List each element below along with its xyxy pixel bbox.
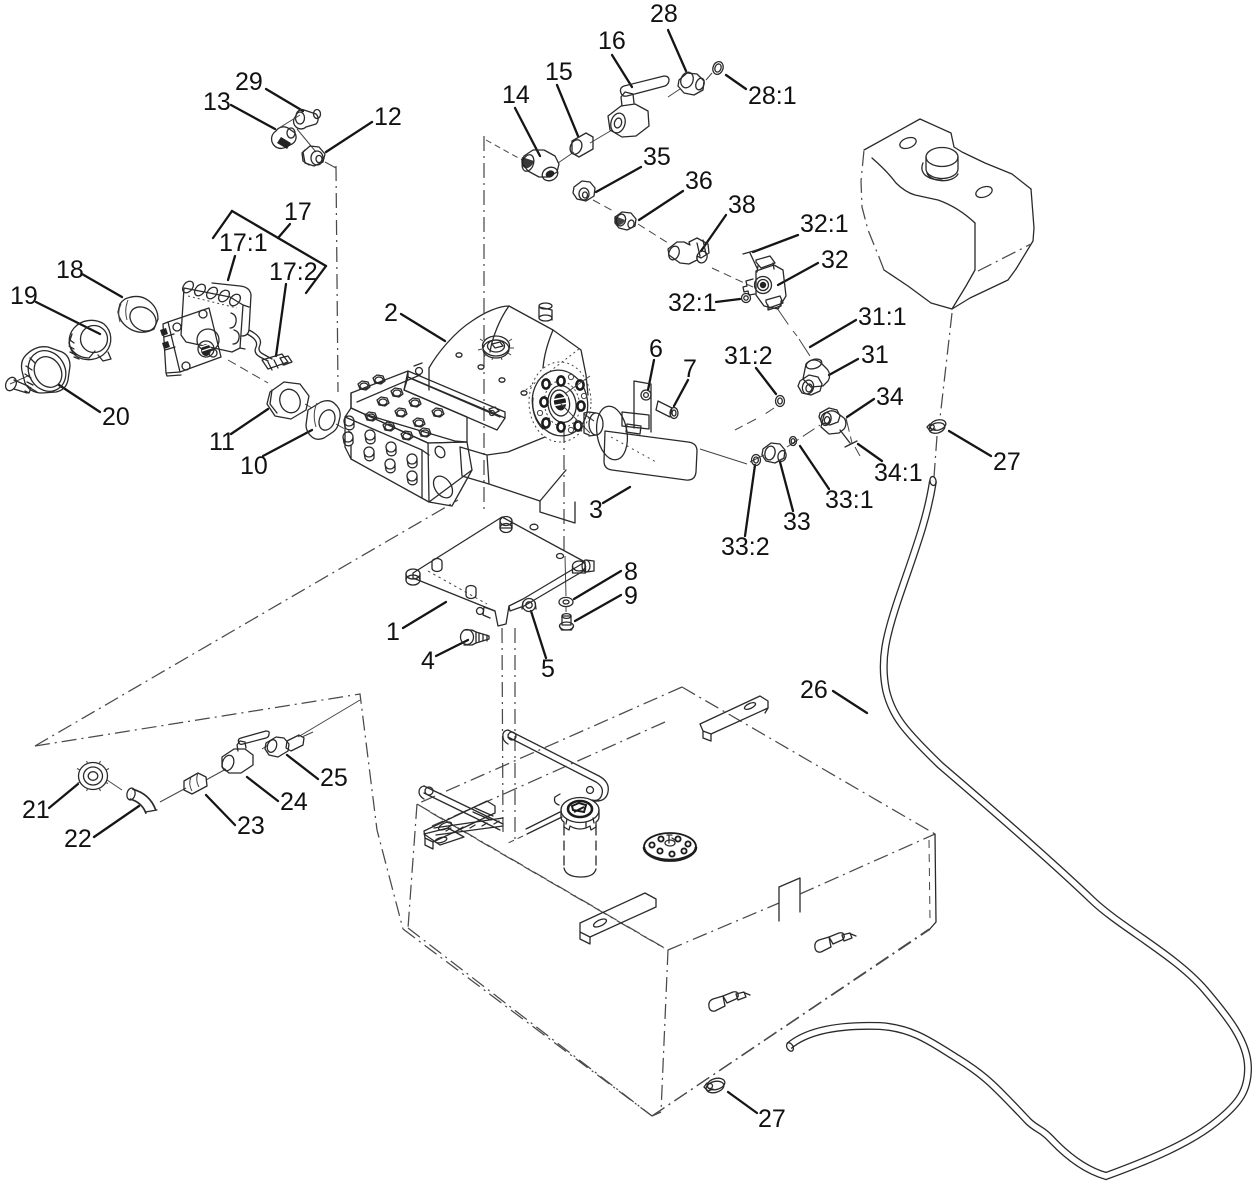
pump 2 manifold rail [404,363,505,430]
label 28 [650,0,686,71]
label 2 [384,299,445,341]
label 17:2 [269,258,318,356]
label 34 [847,383,904,417]
svg-text:15: 15 [545,58,573,86]
bracket 1 bolt top [500,517,512,533]
label 32 [778,246,849,285]
label 32:1 left [668,289,740,317]
valve 24 [220,731,269,773]
svg-text:19: 19 [10,282,38,310]
label 11 [209,409,268,456]
svg-text:18: 18 [56,256,84,284]
o-ring 33:2 [752,455,761,466]
coupler 10 [306,401,340,440]
tick 32:1 pointer [743,250,757,268]
bracket 1 bolt right with nut [573,560,595,573]
centerline gearpump to nut 11 [228,360,268,383]
svg-text:34: 34 [876,383,904,411]
svg-text:31: 31 [861,341,889,369]
gear pump 17:1 rear block [180,279,251,352]
svg-text:27: 27 [758,1105,786,1133]
barb 23 [184,773,207,794]
svg-text:29: 29 [235,68,263,96]
sensor 38 [667,238,709,264]
bracket plate 1 [413,517,585,626]
pump 2 manifold hex plugs top [358,375,444,440]
label 18 [56,256,122,297]
label 16 [598,27,632,87]
label 7 [674,355,697,406]
svg-text:3: 3 [589,496,603,524]
svg-text:16: 16 [598,27,626,55]
screw 20 pin [4,376,31,393]
svg-text:31:1: 31:1 [858,303,907,331]
tank right face [652,834,936,1116]
centerline long diagonal lower-left [35,500,458,746]
nut 5 [522,599,536,612]
label 23 [206,795,265,840]
label 25 [287,755,348,792]
pump 2 manifold front bosses [343,416,417,485]
tank petcock left [709,992,750,1011]
fitting 28 [668,70,712,97]
centerline bracket vertical right [514,628,516,840]
label 3 [589,487,630,524]
clamp 27 upper [927,418,947,435]
label 36 [639,167,713,220]
centerline left panel top edge [35,694,403,929]
tee 32 [743,256,786,310]
centerline chain 35-38 dashes [593,200,753,287]
label 14 [502,81,540,156]
bolt 4 [461,630,490,646]
label 27 right [949,431,1021,476]
centerline reservoir to hose [934,313,952,477]
tank sender plate [644,833,696,861]
fitting 33 [762,443,787,463]
svg-text:35: 35 [643,143,671,171]
elbow 31 [798,357,830,395]
label 32:1 upper [753,210,849,252]
svg-text:26: 26 [800,676,828,704]
clamp 27 lower [704,1076,726,1094]
screw 7 [656,401,678,419]
svg-text:4: 4 [421,647,435,675]
label 31 [829,341,889,375]
washer 6 [641,390,651,400]
label 33:1 [800,446,874,514]
label 10 [240,430,312,480]
centerline vertical left of pump [483,136,485,514]
svg-text:1: 1 [386,618,400,646]
svg-text:12: 12 [374,103,402,131]
label 22 [64,806,139,853]
centerline top chain axis 14-38 [486,140,522,160]
svg-text:7: 7 [683,355,697,383]
fitting 12 nut [302,146,336,168]
reservoir cap [922,148,958,181]
centerline 33 to 34 [787,418,860,456]
tank petcock right [815,933,856,952]
label 28:1 [726,75,797,110]
label 35 [596,143,671,192]
label 33:2 [721,465,770,561]
reservoir outline [861,119,1034,309]
label 17 [278,198,312,238]
pump 2 gearbox body [429,306,588,523]
tank strap bottom [580,893,656,944]
centerline o-ring 31:2 to motor chain [735,408,774,430]
svg-text:14: 14 [502,81,530,109]
washer 8 [559,597,573,606]
svg-text:33:2: 33:2 [721,533,770,561]
label 26 [800,676,867,713]
svg-text:28:1: 28:1 [748,82,797,110]
gear pump 17:1 front flange [160,308,221,376]
ball valve 16 [608,76,669,137]
pump 2 knob [478,336,514,360]
svg-text:9: 9 [624,582,638,610]
o-ring 31:2 [776,396,785,407]
svg-text:32:1: 32:1 [800,210,849,238]
tank left face [408,722,668,1116]
label 8 [574,558,638,599]
label 9 [575,582,638,621]
nut 35 [573,181,595,201]
svg-text:23: 23 [237,812,265,840]
screw 9 [560,614,574,630]
centerline chain 18-20 axis [10,375,360,802]
tank strap top [700,696,768,741]
centerline nut 11 to coupler 10 to manifold [305,404,352,433]
label 38 [701,191,756,251]
label 33 [780,462,811,536]
bushing 15 [568,133,593,157]
svg-text:6: 6 [649,335,663,363]
hose 26 [785,476,1248,1176]
o-ring 32:1 [742,294,751,303]
svg-text:33:1: 33:1 [825,486,874,514]
fitting 13 elbow [272,127,297,149]
tank top face [417,687,935,950]
svg-text:21: 21 [22,796,50,824]
wire 17:2 [247,330,292,370]
svg-text:25: 25 [320,764,348,792]
svg-text:5: 5 [541,655,555,683]
centerline flange to motor [584,414,594,421]
label 31:2 [724,342,776,394]
svg-text:27: 27 [993,448,1021,476]
svg-text:24: 24 [280,788,308,816]
label 34:1 [858,444,923,487]
motor 3 body [584,404,697,480]
callout 17 bracket [213,211,326,293]
centerline 14-15-16 axis [558,130,612,163]
centerline from part 12 down [336,166,338,392]
svg-text:38: 38 [728,191,756,219]
svg-text:20: 20 [102,403,130,431]
tick 34:1 [845,441,857,447]
centerline tee 32 to elbow 31 [777,308,810,356]
svg-text:22: 22 [64,825,92,853]
svg-text:33: 33 [783,508,811,536]
label 24 [247,777,308,816]
svg-text:31:2: 31:2 [724,342,773,370]
elbow 34 [819,408,850,443]
nut 11 [267,382,309,419]
tank mount bracket rails [419,730,608,845]
label 27 bottom [728,1092,786,1133]
label 20 [59,385,130,431]
label 31:1 [810,303,907,347]
svg-text:2: 2 [384,299,398,327]
svg-text:17:1: 17:1 [219,229,268,257]
plug 21 [77,761,109,791]
svg-text:32: 32 [821,246,849,274]
label 21 [22,784,78,824]
pump 2 manifold lower block [345,408,472,506]
centerline tank bottom-left edge [403,929,652,1116]
pump 2 flange [523,349,593,442]
tank strap left [424,801,495,849]
label 29 [235,68,303,111]
elbow 14 [520,150,560,183]
label 5 [531,611,555,683]
label 1 [386,602,446,646]
svg-text:34:1: 34:1 [874,459,923,487]
elbow 22 [126,787,157,812]
pump 2 top port cylinder [539,303,552,321]
label 19 [10,282,100,334]
elbow 18 [118,296,161,336]
svg-text:17:2: 17:2 [269,258,318,286]
pump 2 top face holes [456,353,527,395]
svg-text:13: 13 [203,88,231,116]
svg-text:11: 11 [209,428,235,456]
pump 2 manifold upper block [351,371,467,443]
centerline bracket vertical left [502,628,503,833]
cap 20 [21,344,73,398]
svg-text:36: 36 [685,167,713,195]
o-ring 33:1 [790,437,797,446]
svg-text:28: 28 [650,0,678,28]
fitting 29 [279,110,321,153]
fitting 25 [265,732,313,757]
label 12 [326,103,402,152]
svg-text:32:1: 32:1 [668,289,717,317]
filter [506,794,599,877]
motor 3 mount plate [634,381,651,432]
centerline flange to washer 8 [563,428,565,552]
o-ring 28:1 [711,60,725,76]
svg-text:17: 17 [284,198,312,226]
bracket 1 bolt left [406,569,420,585]
cap 19 [69,320,111,361]
label 15 [545,58,578,136]
label 13 [203,88,275,129]
fitting 36 [615,212,636,230]
label 6 [648,335,663,390]
centerline tank bottom-right edge [652,929,929,1116]
label 4 [421,640,468,675]
centerline motor to 33 chain [700,449,764,464]
bracket 1 standoff cylinders [432,524,564,614]
label 17:1 [219,229,268,280]
